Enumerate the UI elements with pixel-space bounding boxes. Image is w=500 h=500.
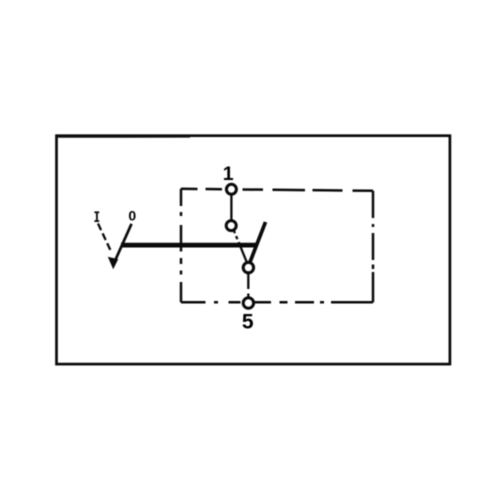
svg-text:5: 5 — [242, 311, 254, 334]
svg-text:1: 1 — [223, 163, 234, 185]
svg-text:0: 0 — [128, 207, 136, 223]
